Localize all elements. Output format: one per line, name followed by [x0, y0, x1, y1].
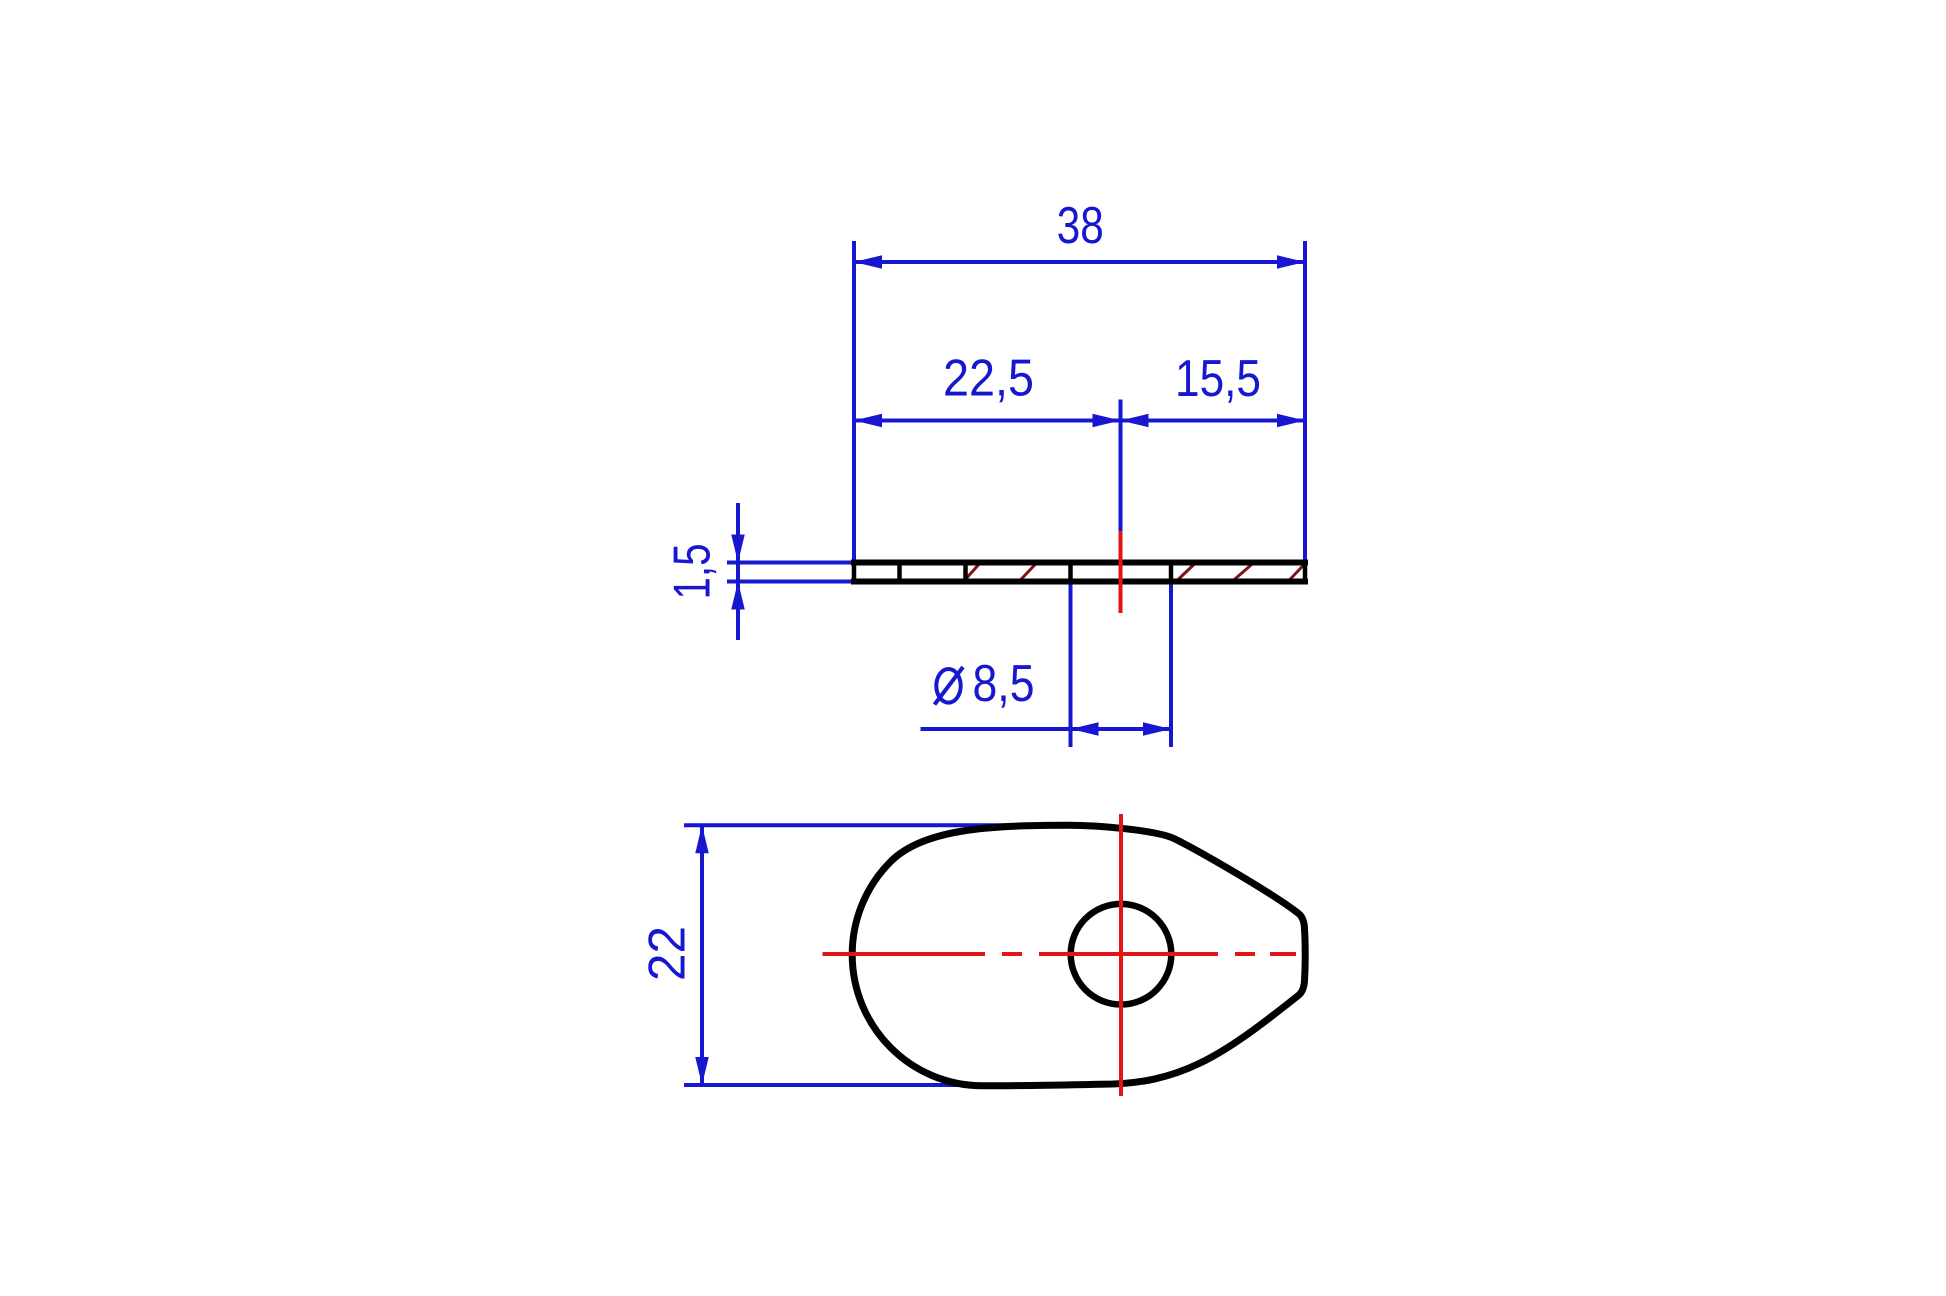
svg-text:38: 38: [1057, 197, 1104, 255]
svg-text:1,5: 1,5: [664, 544, 722, 600]
svg-text:8,5: 8,5: [973, 655, 1035, 713]
svg-text:15,5: 15,5: [1175, 350, 1261, 408]
svg-text:22,5: 22,5: [943, 349, 1034, 407]
svg-text:22: 22: [639, 926, 697, 981]
